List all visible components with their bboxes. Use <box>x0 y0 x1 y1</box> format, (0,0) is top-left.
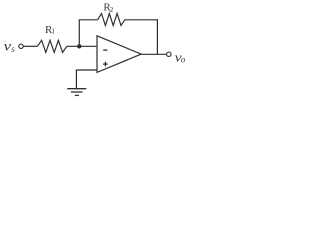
svg-text:o: o <box>181 55 186 65</box>
wire: feedback riser <box>78 20 80 47</box>
svg-text:v: v <box>4 39 12 54</box>
source terminal vs <box>19 44 23 48</box>
op-amp U1 <box>97 36 141 73</box>
wire: feedback drop to output <box>156 19 158 54</box>
node A junction dot <box>77 44 81 48</box>
resistor R1 <box>37 40 66 52</box>
label R2 <box>103 1 113 14</box>
label vo <box>175 50 186 65</box>
ground <box>67 89 86 96</box>
wire: noninverting input to ground corner <box>76 70 97 88</box>
svg-text:1: 1 <box>51 27 55 36</box>
resistor R2 <box>98 14 125 26</box>
wire: R1 to inverting input <box>67 45 97 47</box>
svg-text:2: 2 <box>110 5 114 14</box>
wire: output <box>141 53 167 55</box>
svg-text:s: s <box>11 44 15 54</box>
label vs <box>4 39 16 55</box>
label R1 <box>45 24 55 36</box>
wire: R2 to feedback corner <box>125 19 158 21</box>
output terminal vo <box>167 52 171 56</box>
wire: vs terminal to R1 <box>23 45 37 47</box>
wire: top left to R2 <box>79 19 98 21</box>
